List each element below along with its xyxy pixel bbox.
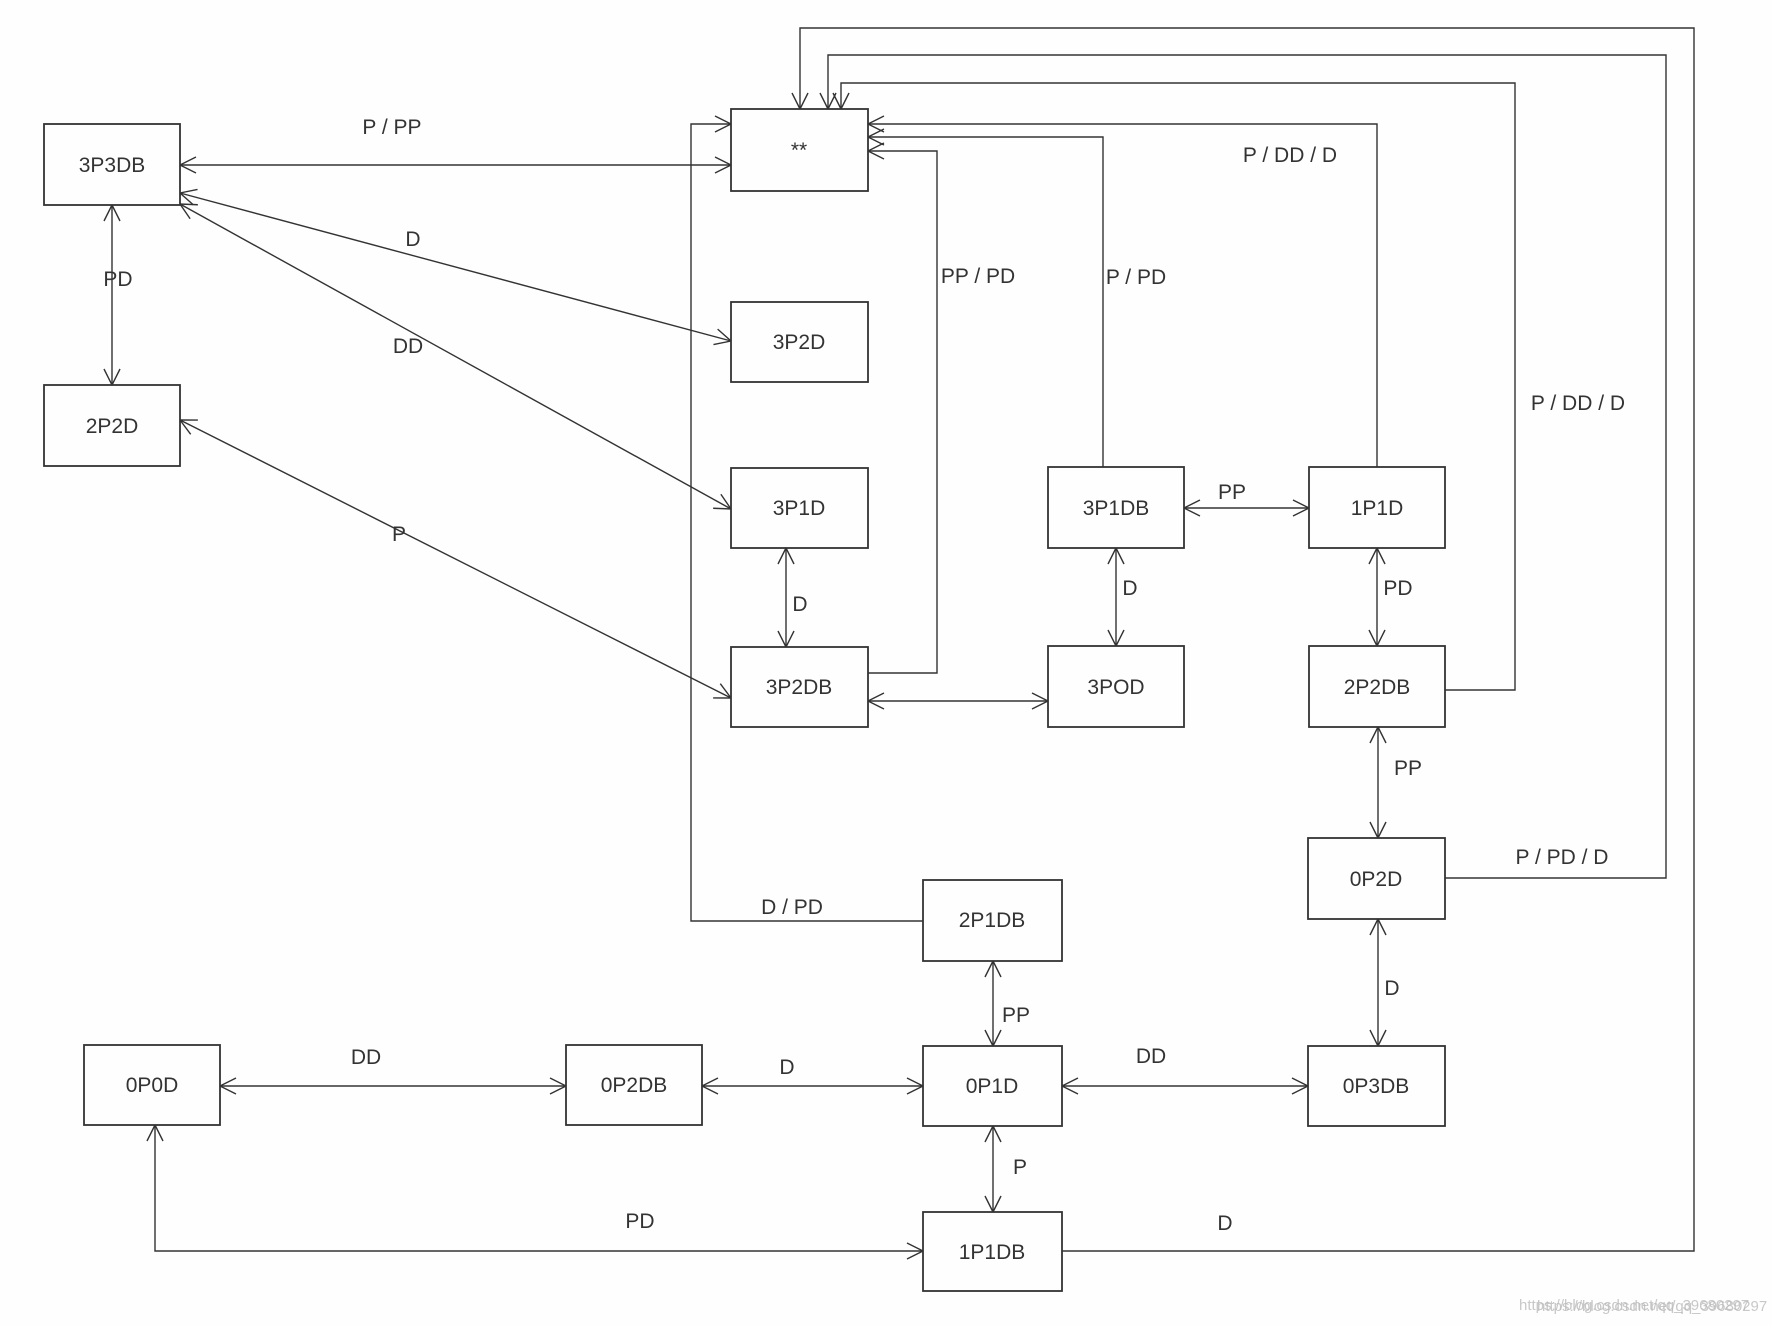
svg-text:DD: DD [1136,1045,1166,1068]
svg-text:PD: PD [625,1210,654,1233]
svg-text:PP: PP [1002,1004,1030,1027]
svg-text:PD: PD [1383,577,1412,600]
svg-text:P / PD / D: P / PD / D [1516,846,1609,869]
svg-text:D: D [405,228,420,251]
svg-text:D / PD: D / PD [761,896,823,919]
svg-text:1P1D: 1P1D [1351,497,1404,520]
svg-text:0P2D: 0P2D [1350,868,1403,891]
svg-text:PP: PP [1394,757,1422,780]
svg-text:0P3DB: 0P3DB [1343,1075,1410,1098]
svg-text:D: D [1384,977,1399,1000]
svg-text:3P2DB: 3P2DB [766,676,833,699]
svg-text:D: D [1122,577,1137,600]
svg-text:2P2DB: 2P2DB [1344,676,1411,699]
svg-text:PD: PD [103,268,132,291]
svg-text:P / PP: P / PP [362,116,421,139]
svg-text:DD: DD [393,335,423,358]
svg-text:3P1D: 3P1D [773,497,826,520]
svg-text:P / DD / D: P / DD / D [1531,392,1625,415]
svg-text:3POD: 3POD [1087,676,1144,699]
svg-text:PP: PP [1218,481,1246,504]
svg-text:P: P [1013,1156,1027,1179]
svg-text:0P1D: 0P1D [966,1075,1019,1098]
svg-text:3P3DB: 3P3DB [79,154,146,177]
svg-text:P / PD: P / PD [1106,266,1166,289]
svg-text:3P1DB: 3P1DB [1083,497,1150,520]
svg-text:P / DD / D: P / DD / D [1243,144,1337,167]
svg-text:D: D [1217,1212,1232,1235]
svg-text:PP / PD: PP / PD [941,265,1015,288]
svg-text:D: D [792,593,807,616]
svg-text:D: D [779,1056,794,1079]
svg-text:DD: DD [351,1046,381,1069]
svg-text:2P1DB: 2P1DB [959,909,1026,932]
svg-text:0P0D: 0P0D [126,1074,179,1097]
svg-text:3P2D: 3P2D [773,331,826,354]
svg-text:0P2DB: 0P2DB [601,1074,668,1097]
svg-text:**: ** [791,139,807,162]
svg-text:P: P [392,523,406,546]
svg-text:2P2D: 2P2D [86,415,139,438]
svg-text:1P1DB: 1P1DB [959,1241,1026,1264]
